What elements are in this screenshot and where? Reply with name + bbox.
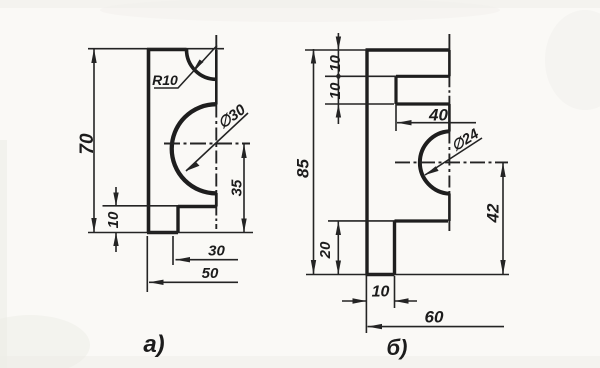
diameter callout O24: leader line and arrowhead [425,138,482,175]
part B step top edge [395,219,449,222]
horizontal centerline fig B [395,161,508,163]
dimension 70: dimension line with arrows [91,49,96,233]
svg-text:50: 50 [202,265,219,282]
svg-text:40: 40 [428,106,448,125]
part A outline: left edge [147,50,151,233]
svg-text:20: 20 [317,241,334,259]
horizontal centerline of notch, fig A [164,143,250,145]
semicircular notch O30 [172,104,217,193]
svg-text:10: 10 [327,82,344,99]
dimension 20: text [317,241,334,259]
semicircular notch O24 [420,131,450,194]
part A step top edge [178,205,216,208]
svg-text:42: 42 [484,203,503,223]
svg-text:а): а) [143,331,164,358]
dimension 10 lower: text [327,82,344,99]
dimension 50: text [202,265,219,282]
diameter callout O30: leader line and arrowhead [186,113,248,171]
dimension 30: extension line [172,236,174,265]
part A right edge lower segment [215,193,218,207]
vertical centerline fig B [448,34,450,231]
dimension 60: text [425,308,444,327]
dimension 85: dimension line with arrows [311,49,316,275]
svg-text:60: 60 [425,308,444,327]
part B slot top edge [396,75,450,78]
dimension 10 (left step): text [105,211,122,228]
svg-text:35: 35 [229,179,246,196]
bottom extension line fig B [306,274,509,276]
dimension 50: extension line [146,236,148,292]
dimension 10 (left step): extension line [103,205,179,207]
dimension 20: extension line [328,220,395,222]
svg-text:R10: R10 [152,72,178,88]
dimension 30: dimension line with arrow [176,257,239,262]
dimension 40: dimension line with arrow [397,120,476,125]
dimension 85: text [294,159,313,178]
label б) [387,335,408,360]
part A right edge upper segment [215,50,218,105]
part B step vertical edge [393,221,396,275]
part A bottom edge [147,231,178,234]
svg-text:10: 10 [327,55,344,72]
part B right edge segments on centerline [448,50,451,221]
svg-text:10: 10 [105,211,122,228]
dimension 40: text [428,106,448,125]
dimension 10 (left step): arrows [113,187,118,252]
dimension 40: extension of slot left edge [395,104,397,131]
radius callout R10: text [152,72,178,88]
dimension 10 bottom: arrows [342,298,417,303]
dimension 35: text [229,179,246,196]
dimension 20: dimension line with arrows [336,221,341,275]
dimension 60: dimension line with arrow [368,324,505,329]
part B bottom edge [366,273,395,276]
vertical centerline of notch, fig A [215,35,217,229]
svg-text:70: 70 [77,133,98,155]
dimension 42: text [484,203,503,223]
part B slot bottom edge [396,102,450,105]
diameter callout O30: text [215,101,250,133]
dimension 35: dimension line with arrows [241,144,246,233]
svg-text:30: 30 [208,243,225,260]
svg-text:85: 85 [294,159,313,178]
part A outline: top edge [147,48,187,51]
label а) [143,331,164,358]
part A corner fillet R10 (concave quarter arc) [187,50,217,80]
dimension 10 bottom: text [372,284,390,301]
dimension 85: extension line top [305,49,367,51]
dimensions 10/10 stacked: extension lines [325,76,396,104]
part A step vertical edge [176,207,179,233]
dimensions 10/10 stacked: arrows and diamond [336,33,342,124]
dimension 50: dimension line with arrow [149,280,238,285]
dimension 70: extension lines [88,49,253,233]
diameter callout O24: text [449,126,482,155]
svg-text:б): б) [387,335,408,360]
dimension 30: text [208,243,225,260]
radius callout R10: leader line and arrowhead [154,46,217,89]
part B left edge [365,50,368,275]
dimension 70: text [77,133,98,155]
dimension 10 bottom: extension lines [366,276,394,333]
svg-text:10: 10 [372,284,390,301]
dimension 10 upper: text [327,55,344,72]
part B slot left edge [394,76,397,104]
part B top edge [366,48,451,51]
dimension 42: dimension line with arrows [500,163,505,275]
